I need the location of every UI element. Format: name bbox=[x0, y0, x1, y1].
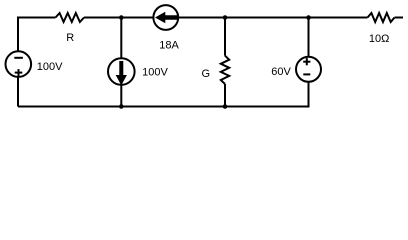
wire bottom from left corner to right corner up to 60V source bbox=[18, 82, 309, 107]
plus sign of V2 bbox=[303, 58, 310, 65]
resistor 10ohm bbox=[368, 13, 395, 22]
wire G branch from node B down to resistor G bbox=[224, 18, 226, 56]
wire middle branch from I2 to bottom wire bbox=[120, 85, 122, 107]
wire middle branch from node A down to current source I2 bbox=[120, 18, 122, 59]
current source U1 18A bbox=[153, 5, 178, 30]
minus sign of V1 bbox=[14, 57, 23, 59]
junction node E on bottom wire bbox=[223, 104, 228, 109]
wire top-left corner and top wire to resistor R bbox=[18, 18, 56, 52]
arrow of current source U1 18A pointing left bbox=[155, 12, 178, 23]
svg-text:100V: 100V bbox=[37, 61, 63, 73]
svg-text:G: G bbox=[202, 68, 211, 80]
svg-text:60V: 60V bbox=[271, 66, 291, 78]
junction node A on top wire bbox=[119, 15, 124, 20]
svg-text:R: R bbox=[66, 32, 74, 44]
junction node B on top wire bbox=[223, 15, 228, 20]
wire from node B to node C bbox=[225, 17, 309, 19]
wire right stub after 10ohm bbox=[395, 17, 404, 19]
wire from R to 18A source bbox=[84, 17, 153, 19]
current source I2 100V middle bbox=[108, 58, 135, 85]
voltage source V2 60V bbox=[296, 57, 321, 82]
wire from 18A source to node B bbox=[178, 17, 225, 19]
junction node D on bottom wire bbox=[119, 104, 124, 109]
wire G branch from resistor G to bottom wire bbox=[224, 84, 226, 107]
svg-text:18A: 18A bbox=[159, 40, 179, 52]
voltage source V1 100V left bbox=[5, 51, 31, 77]
wire from node C to resistor 10ohm bbox=[309, 17, 368, 19]
resistor G bbox=[221, 56, 229, 84]
minus sign of V2 bbox=[303, 73, 310, 75]
junction node C on top wire bbox=[306, 15, 311, 20]
wire left vertical below V1 bbox=[17, 77, 19, 107]
resistor R bbox=[56, 13, 85, 22]
arrow of current source I2 pointing down bbox=[116, 61, 127, 85]
wire 60V branch from node C down to voltage source V2 bbox=[308, 18, 310, 57]
svg-text:100V: 100V bbox=[142, 66, 168, 78]
svg-text:10Ω: 10Ω bbox=[369, 33, 389, 45]
plus sign of V1 bbox=[15, 69, 23, 76]
